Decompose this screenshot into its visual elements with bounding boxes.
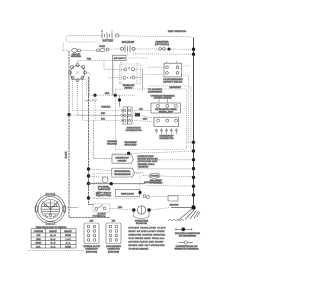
interlock switch S2: [123, 68, 135, 80]
wire switch E to y95: [87, 73, 90, 96]
wire y160: [157, 159, 192, 161]
svg-text:CIRCUIT: CIRCUIT: [49, 231, 58, 233]
emblem switch back view: [35, 193, 66, 224]
svg-text:GROUND: GROUND: [107, 144, 118, 146]
wire 95 drop: [94, 95, 96, 120]
svg-text:SOLENOID: SOLENOID: [122, 41, 135, 44]
wire loop to row2: [63, 43, 68, 50]
svg-text:SAFETY RELAY: SAFETY RELAY: [163, 81, 183, 84]
svg-text:(OPTIONAL): (OPTIONAL): [155, 43, 169, 46]
wire switch drop 2: [78, 82, 122, 116]
solenoid K1 contacts: [121, 45, 136, 52]
junction connector J1: [121, 107, 132, 124]
svg-text:HARNESS: HARNESS: [115, 173, 132, 176]
svg-text:BREAKER: BREAKER: [71, 55, 81, 58]
svg-text:MUST BE REPLACED WHEN: MUST BE REPLACED WHEN: [129, 230, 165, 233]
svg-text:ACC.: ACC.: [36, 245, 41, 248]
svg-text:BATTERY: BATTERY: [103, 40, 114, 43]
svg-text:L + M: L + M: [66, 239, 71, 241]
wire 198 right: [89, 197, 111, 199]
svg-text:ENGINE: ENGINE: [170, 87, 182, 89]
svg-text:SWITCH: SWITCH: [98, 216, 106, 218]
starter motor M: [137, 206, 145, 214]
svg-text:GND: GND: [143, 118, 148, 120]
wire to interlock module: [89, 169, 112, 171]
ammeter circle top: [115, 34, 118, 37]
small box left of gnd: [168, 196, 178, 202]
x88 junction dots: [87, 167, 90, 199]
svg-text:RED: RED: [87, 59, 92, 61]
node dot st1: [132, 208, 135, 211]
interlock module box: [112, 168, 135, 177]
svg-text:B + A: B + A: [51, 238, 56, 241]
svg-text:A + L: A + L: [66, 242, 70, 245]
wire top headlight loop: [66, 36, 101, 42]
svg-text:EDGES AND HOT SURFACES: EDGES AND HOT SURFACES: [129, 244, 166, 247]
svg-text:B + S: B + S: [51, 243, 56, 245]
svg-text:CLIP WIRES AWAY FROM ALL: CLIP WIRES AWAY FROM ALL: [129, 237, 166, 240]
wire to ignition unit: [94, 121, 113, 159]
svg-text:CHECK FOR: CHECK FOR: [138, 156, 155, 158]
left main wire: [69, 51, 110, 218]
connector view 1: [84, 223, 99, 244]
seat plungers: [155, 129, 178, 134]
svg-text:CONNECTION OF: CONNECTION OF: [176, 246, 199, 248]
svg-text:IGNITION: IGNITION: [116, 158, 130, 160]
node dot left-115: [67, 113, 70, 116]
svg-text:RED: RED: [102, 107, 112, 109]
svg-text:CONNECTOR: CONNECTOR: [107, 249, 120, 251]
svg-text:ALT.: ALT.: [139, 107, 143, 110]
bus dots: [192, 48, 195, 197]
ignition unit box: [112, 155, 133, 163]
right bus: [193, 38, 195, 208]
x88 main wire: [89, 77, 94, 205]
svg-text:WHITE: WHITE: [138, 167, 149, 169]
svg-text:RED: RED: [101, 113, 106, 115]
svg-text:(WIRE SIDE): (WIRE SIDE): [86, 251, 98, 253]
svg-text:NONE: NONE: [65, 235, 71, 237]
svg-text:FUSE: FUSE: [151, 176, 160, 178]
svg-text:EQUIPPED): EQUIPPED): [96, 195, 111, 197]
oval component: [149, 173, 160, 178]
svg-text:WIRING INSULATED CLIPS: WIRING INSULATED CLIPS: [129, 226, 167, 229]
wire interlock right vertical: [142, 69, 144, 90]
wire y154-151: [112, 151, 192, 153]
svg-text:CIRCUIT: CIRCUIT: [64, 231, 73, 233]
svg-text:SPARK WITH AN: SPARK WITH AN: [138, 158, 159, 161]
svg-text:TO AVOID DAMAGE.: TO AVOID DAMAGE.: [129, 247, 149, 250]
svg-text:M + G: M + G: [50, 235, 56, 237]
legend splice symbol: [179, 242, 185, 244]
svg-text:ALTERNATOR: ALTERNATOR: [144, 181, 162, 184]
svg-text:INDICATES CONNECTORS: INDICATES CONNECTORS: [175, 232, 201, 235]
optional equipment dashed box: [94, 173, 140, 198]
node dot bus bottom: [191, 205, 195, 209]
note paragraph: [129, 226, 167, 250]
svg-text:TERMINAL BLOCK: TERMINAL BLOCK: [83, 245, 100, 248]
svg-text:RED: RED: [118, 207, 123, 209]
svg-text:UNIT: UNIT: [118, 160, 128, 162]
presence relay box: [151, 103, 180, 113]
svg-text:B + A: B + A: [51, 245, 56, 248]
wire solenoid to bus49: [135, 48, 192, 50]
starter switch box: [93, 204, 110, 212]
svg-text:RUN: RUN: [36, 239, 41, 241]
svg-text:(WIRE SIDE): (WIRE SIDE): [108, 251, 120, 253]
node dot 111-183.7: [110, 182, 113, 185]
safety relay U2: [164, 61, 182, 77]
interlock switch verticals: [121, 62, 137, 84]
regulator box: [115, 189, 139, 196]
wire module right: [135, 173, 149, 176]
svg-text:CONTROL MODULE: CONTROL MODULE: [154, 98, 173, 100]
wire to gnd dot: [171, 207, 191, 209]
wire switch SE drop: [85, 80, 87, 96]
ground main: [178, 209, 200, 221]
svg-text:REGULATOR: REGULATOR: [121, 192, 134, 195]
wire y183.7: [89, 183, 146, 185]
wire coil drop: [127, 52, 129, 55]
svg-text:12 VDC: 12 VDC: [114, 58, 126, 60]
svg-text:WIRES IN HARNESS: WIRES IN HARNESS: [175, 248, 200, 251]
legend connector symbol: [175, 228, 181, 230]
zigzag wire y169: [137, 168, 191, 169]
wire switch top to solenoid coil: [78, 60, 114, 63]
svg-text:RELAY: RELAY: [159, 111, 174, 114]
wire battery to bus top: [119, 36, 194, 42]
node dot 115-95: [114, 94, 117, 97]
connector view 2: [106, 223, 121, 244]
wire 119 to connector: [119, 95, 121, 107]
regulator out circles: [143, 195, 146, 198]
wire y86: [148, 86, 191, 90]
interlock switch wires: [108, 69, 143, 78]
svg-text:PLUG HARNESS: PLUG HARNESS: [106, 245, 122, 248]
node dot 169-49: [168, 48, 171, 51]
wire solenoid down: [112, 61, 114, 96]
svg-text:NONE: NONE: [65, 246, 71, 248]
wire conn right alt: [132, 109, 151, 111]
wire y95: [88, 94, 135, 96]
switch position table: [31, 229, 76, 248]
wire y186: [146, 185, 192, 187]
svg-text:MOTOR: MOTOR: [136, 223, 148, 225]
svg-text:VALVE: VALVE: [98, 188, 111, 191]
wire conn gnd: [132, 121, 154, 122]
svg-text:IN HARNESS: IN HARNESS: [179, 235, 197, 238]
wire switch drop 1: [73, 80, 121, 111]
wire diode: [132, 115, 154, 118]
vert wire right a: [188, 79, 190, 142]
svg-text:EXTERNAL: EXTERNAL: [115, 170, 132, 173]
wire to starter: [110, 209, 132, 210]
battery polarity marks: [101, 30, 113, 32]
svg-text:GROUND: GROUND: [125, 145, 138, 147]
svg-text:KEY SWITCH: KEY SWITCH: [168, 31, 187, 33]
svg-text:CONNECTOR: CONNECTOR: [85, 249, 98, 251]
hourmeter circle: [102, 177, 108, 183]
node dot st2: [147, 208, 150, 211]
inline connector on y49 wire: [159, 48, 162, 51]
wire y54 to bus: [133, 53, 192, 55]
wavy gnd wire: [168, 219, 184, 221]
wire y142: [187, 141, 193, 143]
emblem leader line: [66, 207, 78, 210]
dashed under table: [28, 250, 84, 252]
wire y115 from left line: [69, 114, 121, 116]
starter switch contacts: [95, 208, 98, 211]
svg-text:FUSE: FUSE: [99, 46, 105, 48]
relay corner wire: [182, 75, 189, 79]
diode D1: [135, 113, 140, 117]
relay wires: [143, 66, 192, 75]
vert wire right b: [190, 90, 192, 151]
seat switch S3: [154, 117, 178, 126]
ignition switch S1: [69, 64, 87, 82]
circuit breaker CB1: [72, 48, 78, 52]
wire to fuse: [81, 49, 96, 51]
wire switch drop 3: [82, 80, 121, 121]
svg-text:MOVING PARTS AND SHARP: MOVING PARTS AND SHARP: [129, 240, 165, 243]
fuse F1: [97, 49, 100, 52]
wire y195: [149, 195, 192, 197]
svg-text:POSITION: POSITION: [34, 231, 44, 233]
svg-text:CONNECTOR: CONNECTOR: [126, 130, 143, 132]
svg-text:APPROVED GAP: APPROVED GAP: [138, 160, 159, 163]
svg-text:SWITCH: SWITCH: [160, 138, 175, 140]
engine dashed box: [115, 89, 186, 150]
node dot 119-100: [118, 98, 121, 101]
svg-text:REMOVED DURING SERVICE.: REMOVED DURING SERVICE.: [129, 234, 166, 236]
solenoid coil box: [113, 55, 126, 60]
svg-text:START: START: [35, 242, 42, 245]
wire oval right: [160, 175, 192, 178]
svg-text:HARNESS: HARNESS: [148, 91, 163, 94]
node dot regulator: [138, 191, 141, 194]
wire starter to gnd: [151, 208, 170, 210]
wire solenoid box right: [126, 57, 148, 59]
svg-text:BLK: BLK: [101, 119, 105, 121]
node dot 129-154: [127, 152, 130, 155]
wire branch down to interlock: [104, 61, 108, 70]
svg-text:GRN: GRN: [105, 93, 110, 95]
zigzag ground wire: [85, 100, 97, 102]
battery B1: [102, 33, 112, 39]
node dot 95-95: [93, 94, 96, 97]
interlock switch box: [120, 64, 141, 84]
svg-text:GROUND: GROUND: [170, 205, 179, 207]
starter loop: [134, 212, 149, 219]
wire fuse to solenoid: [109, 48, 120, 50]
svg-text:BLACK: BLACK: [65, 151, 68, 158]
